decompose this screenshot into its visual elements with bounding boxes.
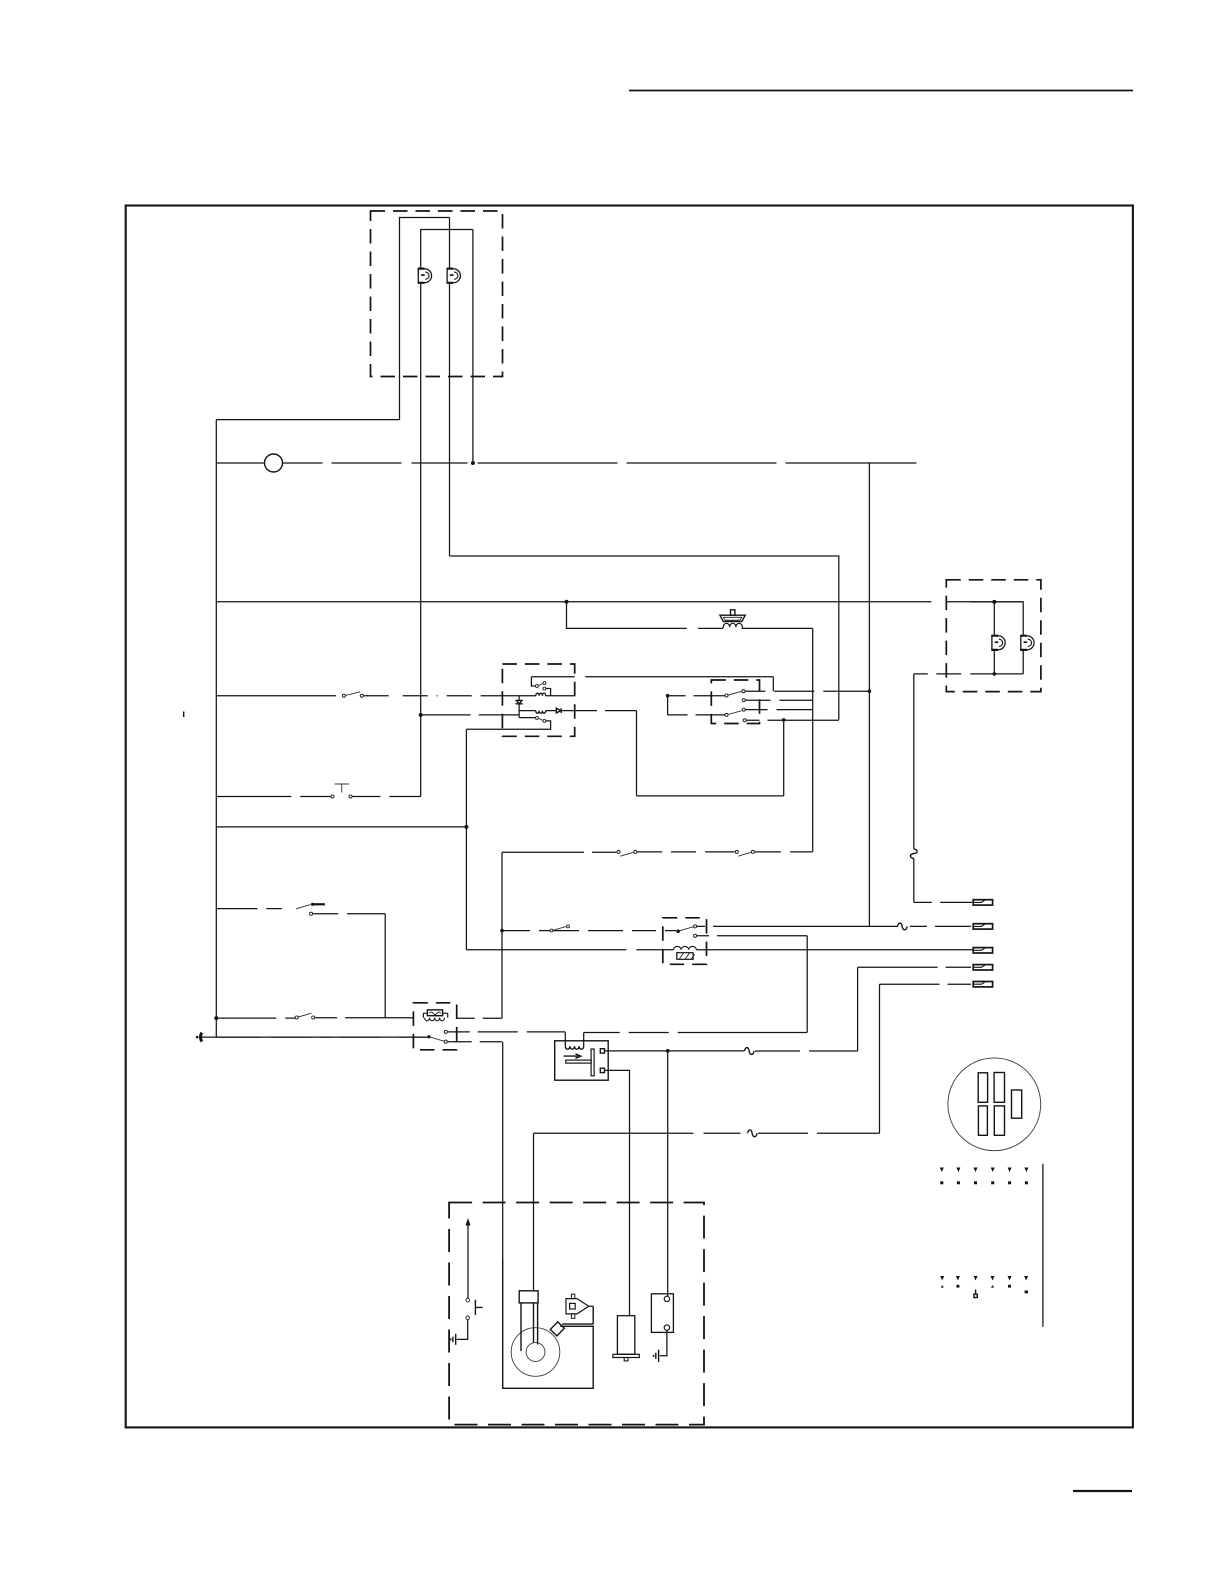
wire tail return to terminal xyxy=(914,901,972,903)
tail bulb 2 xyxy=(1020,636,1034,651)
wire switch arm row to motor xyxy=(448,1041,502,1043)
connector slot 4 xyxy=(978,1106,987,1135)
wire parking lamp row to jog xyxy=(747,719,839,721)
wire lamp L2 leads xyxy=(449,218,451,269)
ignition pickup xyxy=(566,1294,593,1318)
kill switch arrow lead xyxy=(467,1224,469,1298)
wire relay diode output drop xyxy=(636,711,638,796)
lightswitch pole 1 xyxy=(725,694,728,697)
headlamp bulb L2 xyxy=(447,268,461,283)
wire starter riser down xyxy=(502,1042,504,1261)
terminal T2 xyxy=(973,924,992,929)
brake switch 2 xyxy=(735,850,738,853)
connector slot 5 xyxy=(994,1106,1004,1135)
lightswitch pole 2 xyxy=(725,713,728,716)
wire riser breaker to brake row xyxy=(501,852,503,1018)
solenoid coil with leads xyxy=(565,1032,583,1046)
breaker points box xyxy=(651,1294,673,1333)
pin legend group 1 xyxy=(940,1168,1029,1185)
thermal breaker element xyxy=(423,1010,447,1021)
wire buzzer feed drop xyxy=(567,602,687,629)
kill switch ground xyxy=(451,1334,456,1345)
relay coil 2 with diode xyxy=(519,710,575,712)
wire terminal B to condenser drop xyxy=(605,1070,630,1315)
tail lamp dashed box xyxy=(946,580,1041,692)
wire relay contact output row xyxy=(531,677,773,692)
motor housing outline xyxy=(503,1260,594,1388)
main supply bus (left vertical) xyxy=(215,420,217,1038)
wire lightswitch feed top xyxy=(668,695,725,697)
main switch arm xyxy=(427,1035,430,1038)
junction buzzer tap xyxy=(565,600,569,604)
wire lightswitch feed bottom branch xyxy=(667,696,669,715)
junction headlamp return to accessory row xyxy=(471,461,475,465)
wire terminal A riser xyxy=(857,967,859,1051)
relay diode xyxy=(556,708,561,713)
terminal T3 xyxy=(973,948,992,953)
wire tail return drop with splice curl xyxy=(913,674,915,903)
wire flasher NC jog xyxy=(697,935,807,937)
wire flasher NO to terminal row xyxy=(697,925,971,927)
wire key switch row xyxy=(216,908,281,910)
wire brush feed row with splice curl xyxy=(534,1132,880,1134)
pin legend key mark xyxy=(974,1290,977,1298)
key switch arm xyxy=(296,905,311,909)
wire lightswitch feed upper contact row xyxy=(746,699,813,701)
junction ground return xyxy=(464,825,468,829)
wire lighting ground row through flasher coil xyxy=(466,949,973,951)
wire breaker out to riser xyxy=(457,1017,502,1019)
wire jog down from parking row xyxy=(783,720,785,796)
wire points ground lead xyxy=(660,1330,667,1356)
wire accessory drop right xyxy=(868,462,870,926)
motor armature circles xyxy=(511,1328,560,1377)
relay zener diode xyxy=(518,696,520,700)
wire breaker feed row with cutout switch xyxy=(218,1017,296,1019)
wire headlamp feed 2 top jumper xyxy=(421,230,473,269)
junction tail bottom xyxy=(993,672,997,676)
solenoid plunger xyxy=(566,1049,594,1076)
inline connector ring xyxy=(265,454,283,472)
footer rule xyxy=(1073,1490,1132,1492)
motor brush holder xyxy=(521,1303,538,1351)
points ground xyxy=(654,1350,659,1362)
junction parking row xyxy=(782,718,786,722)
wire accessory row with inline connector xyxy=(216,462,264,464)
terminal T5 xyxy=(973,982,992,987)
junction high beam at drop xyxy=(868,689,872,693)
wire buzzer row to drop xyxy=(742,627,813,629)
wire T4 row xyxy=(858,966,971,968)
wire flasher NC drop xyxy=(806,936,808,1033)
wire flasher feed row xyxy=(502,930,676,932)
junction horn input on lamp lead xyxy=(419,713,423,717)
connector slot 1 xyxy=(978,1073,987,1103)
brake switch 1 xyxy=(617,850,620,853)
connector face circle xyxy=(948,1058,1041,1151)
wire headlamp return 4 xyxy=(472,230,474,464)
tail bulb 1 xyxy=(991,636,1005,651)
motor brush cap xyxy=(519,1291,538,1303)
wire relay ground return row xyxy=(216,826,466,828)
wire relay ground drop xyxy=(465,729,467,950)
junction tail lamp box entry xyxy=(992,600,996,604)
wire battery terminal row xyxy=(202,1036,428,1038)
junction bus to breaker row xyxy=(214,1016,218,1020)
kill switch contacts xyxy=(466,1298,470,1302)
splice curl on flasher row xyxy=(898,923,908,930)
flasher contact arm xyxy=(676,929,680,933)
wire jog across xyxy=(637,795,784,797)
condenser xyxy=(613,1316,639,1361)
outer border frame xyxy=(126,206,1133,1428)
wire key feed drop xyxy=(384,914,386,1018)
flasher feed switch xyxy=(553,927,566,931)
wire horn row with horn switch xyxy=(216,695,336,697)
wire brake light row with switches xyxy=(502,851,584,853)
wire headlamp L2 to brake drop xyxy=(450,556,839,720)
engine dashed box xyxy=(449,1203,704,1425)
stop button xyxy=(331,795,334,798)
terminal T4 xyxy=(973,965,992,970)
header rule xyxy=(629,90,1133,92)
battery feed terminal xyxy=(201,1033,202,1042)
stray tick mark xyxy=(183,712,185,718)
solenoid valve box xyxy=(555,1041,609,1080)
terminal T1 xyxy=(973,900,992,905)
wire headlamp feed 1 top jumper xyxy=(216,218,449,420)
pin legend bracket line xyxy=(1042,1164,1044,1327)
flasher coil element xyxy=(674,946,697,959)
connector slot 3 xyxy=(1012,1090,1022,1118)
solenoid arrow xyxy=(564,1054,581,1058)
solenoid terminal A xyxy=(600,1049,604,1053)
headlamp bulb L1 xyxy=(418,268,432,283)
solenoid terminal B xyxy=(600,1068,604,1072)
relay contact points xyxy=(535,685,538,688)
commutator brush (diagonal) xyxy=(550,1322,564,1336)
relay contact to coil link xyxy=(546,689,551,696)
wire horn relay input branch xyxy=(421,714,519,716)
wire T5 row xyxy=(880,983,972,985)
wire ignition drop to points xyxy=(667,1051,669,1297)
light switch dashed box xyxy=(711,680,759,724)
wire tail lamp bottom bus xyxy=(914,673,1023,675)
wire brush drop xyxy=(533,1133,535,1291)
wire buzzer row continued xyxy=(698,627,723,629)
wire switch NO row to solenoid coil xyxy=(448,1031,566,1033)
horn relay dashed box xyxy=(502,664,574,736)
connector slot 2 xyxy=(994,1073,1004,1103)
relay contact lead xyxy=(531,677,535,686)
kill switch ground lead xyxy=(457,1320,468,1339)
relay lower contact link xyxy=(519,717,535,719)
wire solenoid coil return row to flasher NC xyxy=(584,1032,808,1034)
headlamp assembly dashed box xyxy=(371,211,503,377)
relay coil 1 xyxy=(502,695,574,697)
wire stop switch row (push button) xyxy=(216,796,332,798)
wire lamp L1 down lead xyxy=(420,283,422,797)
junction flasher feed tap xyxy=(500,929,504,933)
wire tail lamp top bus xyxy=(970,602,1023,635)
wire high beam row (dashed) xyxy=(745,690,869,692)
wire buzzer/lightswitch drop xyxy=(812,628,814,851)
wire lightswitch feed lower contact row xyxy=(746,709,813,711)
wire tail lamp feed row xyxy=(216,601,1023,603)
junction horn row to lightswitch xyxy=(666,694,670,698)
horn switch xyxy=(342,694,345,697)
wire relay diode output row xyxy=(575,710,637,712)
wire main switch row xyxy=(216,1036,427,1038)
junction ignition tap xyxy=(666,1049,670,1053)
pin legend group 2 xyxy=(940,1276,1028,1293)
wire brush feed riser xyxy=(879,984,881,1133)
buzzer (horn) symbol xyxy=(720,610,745,628)
wire tail lamp T1 leads xyxy=(993,602,995,635)
flasher dashed box xyxy=(663,918,707,965)
circuit breaker dashed box xyxy=(413,1003,456,1050)
wire terminal A row with splice curl xyxy=(605,1050,858,1052)
